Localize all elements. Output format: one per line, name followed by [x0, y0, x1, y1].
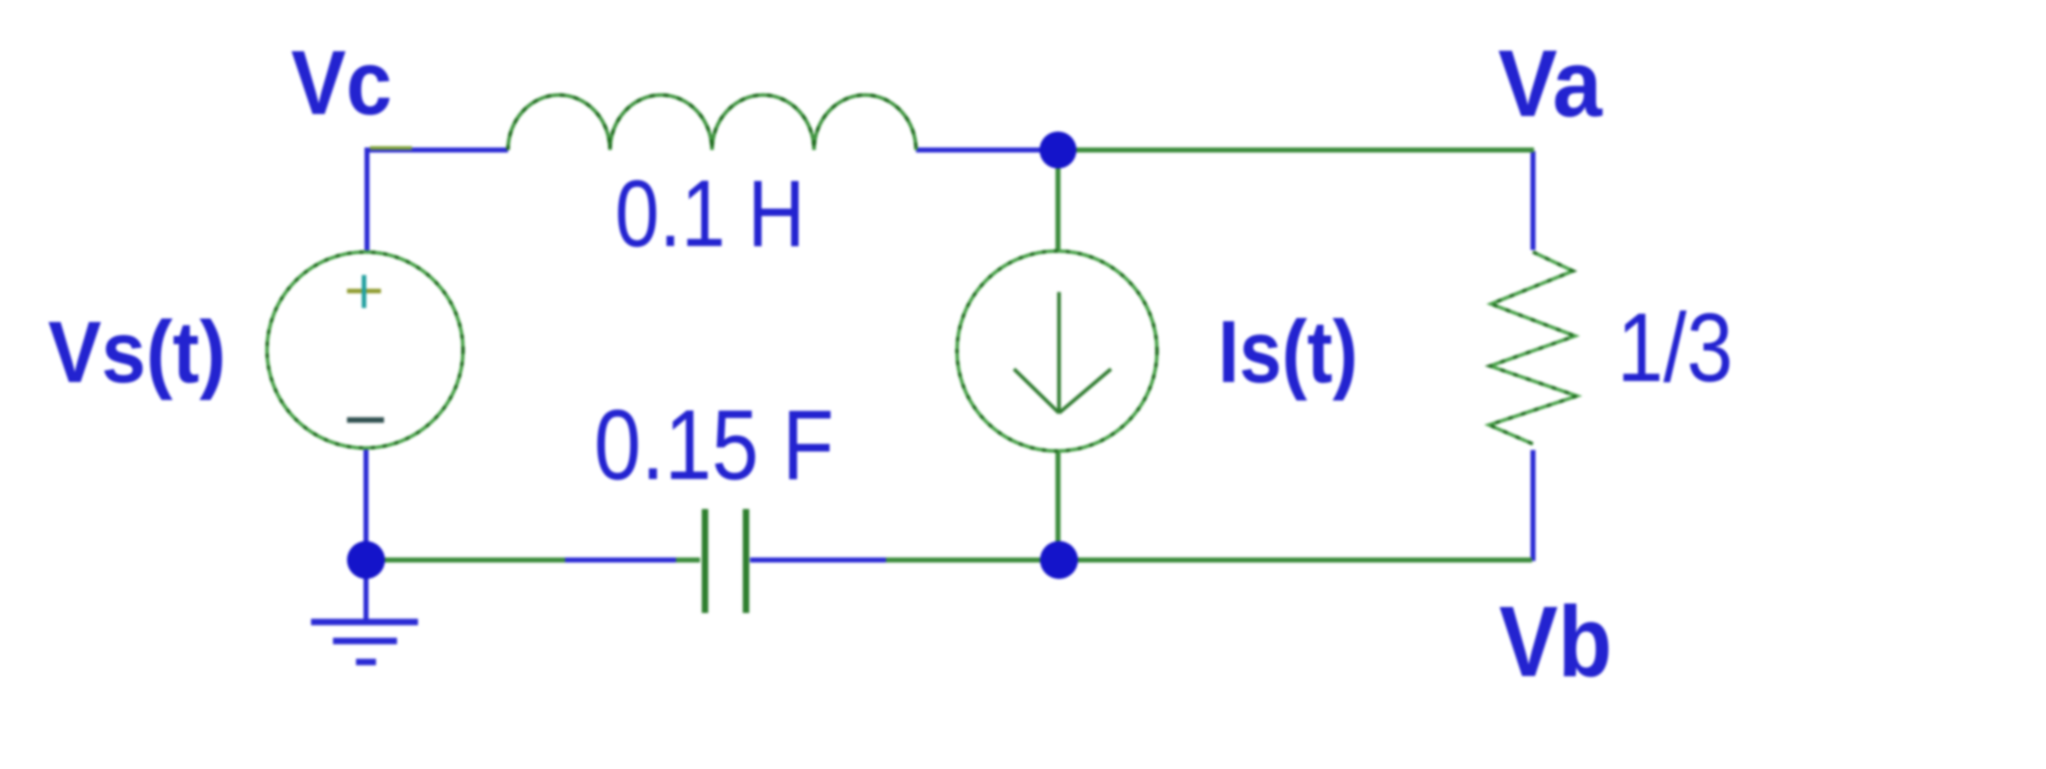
svg-text:0.1 H: 0.1 H [615, 161, 805, 267]
svg-text:Vs(t): Vs(t) [48, 304, 226, 401]
svg-text:0.15 F: 0.15 F [594, 389, 834, 500]
svg-text:Is(t): Is(t) [1218, 302, 1358, 401]
svg-text:Va: Va [1498, 31, 1603, 137]
svg-text:Vb: Vb [1499, 586, 1612, 698]
svg-text:1/3: 1/3 [1617, 293, 1733, 402]
svg-text:Vc: Vc [291, 33, 392, 134]
